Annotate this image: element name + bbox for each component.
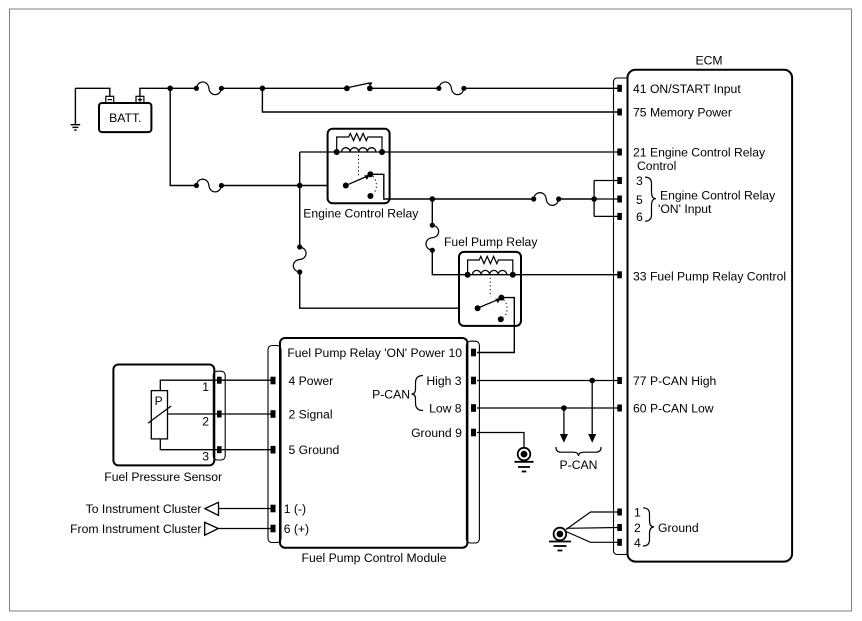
module pin 2 Signal xyxy=(271,410,276,418)
svg-text:4 Power: 4 Power xyxy=(289,374,334,388)
wire fuse F6 to fuel pump relay coil xyxy=(432,250,467,275)
svg-text:Low 8: Low 8 xyxy=(429,402,462,416)
svg-text:'ON' Input: 'ON' Input xyxy=(658,202,712,216)
wire module High 3 to ECM pin 77 xyxy=(477,380,619,382)
svg-text:2 Signal: 2 Signal xyxy=(289,408,333,422)
wire fuse F5 to node E xyxy=(559,198,594,200)
svg-text:Fuel Pressure Sensor: Fuel Pressure Sensor xyxy=(104,470,222,484)
fuel pump relay switch xyxy=(475,295,508,323)
battery BATT. xyxy=(99,103,151,132)
module pin 10 xyxy=(471,349,476,357)
engine control relay switch xyxy=(343,171,377,199)
fuse F6 (vertical) xyxy=(426,223,439,253)
module pin 6 (+) xyxy=(271,525,276,533)
fuse F3 xyxy=(194,179,224,192)
svg-text:1 (-): 1 (-) xyxy=(284,502,306,516)
svg-text:Ground 9: Ground 9 xyxy=(411,426,462,440)
module pin 4 Power xyxy=(271,377,276,385)
svg-text:P-CAN: P-CAN xyxy=(372,387,410,401)
sensor pin 1 xyxy=(217,377,222,384)
sensor element rectangle xyxy=(151,391,167,439)
ECM pin 5 xyxy=(617,196,622,203)
node A junction xyxy=(167,86,173,92)
ECM pin 60 xyxy=(617,405,622,412)
wire module Low 8 to ECM pin 60 xyxy=(477,407,619,409)
ECM pin 75 xyxy=(617,109,622,116)
fuel pump relay plunger dotted link xyxy=(489,278,491,297)
svg-text:Ground: Ground xyxy=(658,521,699,535)
node D junction xyxy=(430,196,436,202)
module pin 1 (-) xyxy=(271,505,276,513)
wire ground to ECM pin 2 xyxy=(566,527,619,530)
ECM pin 41 xyxy=(617,85,622,92)
fuse F1 xyxy=(194,82,224,95)
wire node D to fuse F5 xyxy=(432,198,533,200)
wire fuse F4 to fuel pump relay switch input xyxy=(300,272,478,308)
wire battery negative to ground xyxy=(75,88,109,96)
ECM pin 1 xyxy=(617,509,622,516)
fuel pump relay coil terminal dots xyxy=(465,272,471,278)
fuse F2 xyxy=(436,82,466,95)
ECM pin 2 xyxy=(617,524,622,531)
svg-text:Fuel Pump Relay 'ON' Power 10: Fuel Pump Relay 'ON' Power 10 xyxy=(287,346,462,360)
wire node A to fuse F1 xyxy=(170,87,196,89)
svg-text:5 Ground: 5 Ground xyxy=(289,443,340,457)
fuel pressure sensor box xyxy=(113,365,214,466)
wire to module pin 6 (+) xyxy=(218,528,270,530)
svg-text:33 Fuel Pump Relay Control: 33 Fuel Pump Relay Control xyxy=(633,270,786,284)
ECM pin 4 xyxy=(617,539,622,546)
engine control relay coil terminal dots xyxy=(334,149,340,155)
ignition switch SW1 xyxy=(344,82,373,91)
P-CAN junction dot on High line xyxy=(589,378,595,384)
svg-text:P: P xyxy=(155,394,163,408)
wire node C down to fuse F4 xyxy=(299,186,301,248)
bracket wires to ECM pins 3,5,6 xyxy=(594,181,619,217)
wire node B to ignition switch xyxy=(262,87,347,89)
node E junction xyxy=(591,196,597,202)
fuse F5 xyxy=(531,193,561,206)
brace } for ground pins 1,2,4 xyxy=(643,508,654,546)
fuel pump relay coil through-wire xyxy=(459,274,619,276)
battery positive terminal xyxy=(136,96,144,103)
svg-text:6 (+): 6 (+) xyxy=(284,522,309,536)
brace } for pins 3,5,6 xyxy=(645,177,656,221)
sensor pin 3 xyxy=(217,446,222,453)
svg-text:Engine Control Relay: Engine Control Relay xyxy=(303,206,419,220)
fuel pump relay coil xyxy=(472,270,506,274)
svg-text:P-CAN: P-CAN xyxy=(560,458,598,472)
module pin Ground 9 xyxy=(471,429,476,437)
ECM connector strip xyxy=(614,78,628,555)
battery negative terminal xyxy=(106,96,114,103)
svg-text:ECM: ECM xyxy=(695,54,722,68)
chassis ground G3 (ECM grounds) xyxy=(549,528,571,551)
sensor connector strip xyxy=(213,371,225,460)
svg-text:Fuel Pump Relay: Fuel Pump Relay xyxy=(444,235,538,249)
wire ground to ECM pin 1 xyxy=(566,512,619,530)
svg-text:5: 5 xyxy=(636,193,643,207)
P-CAN arrow from High xyxy=(591,381,593,435)
module pin 5 Ground xyxy=(271,446,276,454)
svg-text:3: 3 xyxy=(636,174,643,188)
wire sensor pin1 to module 4 Power xyxy=(222,379,271,381)
svg-text:2: 2 xyxy=(634,521,641,535)
svg-text:77 P-CAN High: 77 P-CAN High xyxy=(633,374,716,388)
ECM pin 33 xyxy=(617,271,622,278)
svg-text:75 Memory Power: 75 Memory Power xyxy=(633,106,732,120)
ECM pin 77 xyxy=(617,377,622,384)
module pin High 3 xyxy=(471,377,476,385)
wire battery positive to node A xyxy=(140,88,170,96)
sensor pin 2 xyxy=(217,411,222,418)
svg-text:41 ON/START Input: 41 ON/START Input xyxy=(633,82,741,96)
chassis ground G2 (module ground) xyxy=(515,448,534,472)
sensor internal wire to pin 3 xyxy=(160,439,217,450)
svg-text:BATT.: BATT. xyxy=(109,111,141,125)
P-CAN junction dot on Low line xyxy=(561,405,567,411)
svg-text:Control: Control xyxy=(637,159,676,173)
svg-text:6: 6 xyxy=(636,210,643,224)
svg-text:2: 2 xyxy=(202,415,209,429)
svg-text:From Instrument Cluster: From Instrument Cluster xyxy=(70,522,201,536)
sensor diagonal slash xyxy=(148,406,171,423)
wire fuse F3 to node C and relay switch input xyxy=(221,185,345,187)
wire sensor pin3 to module 5 Ground xyxy=(222,449,271,451)
wire coil left branch down to node C xyxy=(299,152,301,186)
ground (battery negative earth ground) xyxy=(71,88,81,130)
svg-text:60 P-CAN Low: 60 P-CAN Low xyxy=(633,402,714,416)
wire switch to fuse F2 xyxy=(370,87,439,89)
node B xyxy=(260,86,266,92)
ECM pin 6 xyxy=(617,213,622,220)
P-CAN underbrace xyxy=(556,447,601,456)
svg-text:Fuel Pump Control Module: Fuel Pump Control Module xyxy=(302,551,447,565)
wire module Ground 9 to chassis ground xyxy=(477,433,524,448)
engine control relay coil through-wire (to ECM pin 21) xyxy=(300,151,619,153)
wire to module pin 1 (-) xyxy=(219,508,271,510)
P-CAN arrow from Low xyxy=(563,408,565,434)
engine control relay K1 box xyxy=(328,129,390,204)
svg-text:High 3: High 3 xyxy=(426,374,461,388)
engine control relay coil xyxy=(342,148,376,152)
wire node B down to memory power line / ECM pin 75 xyxy=(262,88,619,112)
fuel pump control module box xyxy=(280,338,467,548)
wire fuse F1 to node B xyxy=(221,87,262,89)
wire fuse F2 to ECM pin 41 xyxy=(464,87,619,89)
wire node A down to relay feed line xyxy=(170,88,196,185)
brace { for P-CAN high/low xyxy=(412,376,424,411)
fuel pump relay K2 box xyxy=(459,252,521,326)
ECM pin 3 xyxy=(617,177,622,184)
svg-text:To Instrument Cluster: To Instrument Cluster xyxy=(86,502,202,516)
fuse F4 (vertical) xyxy=(293,244,306,274)
engine control relay plunger dotted link xyxy=(358,155,360,176)
svg-text:Engine Control Relay: Engine Control Relay xyxy=(660,189,776,203)
module left connector strip xyxy=(268,346,281,543)
svg-text:4: 4 xyxy=(634,536,641,550)
wire fuel pump relay switch output to module pin 10 xyxy=(477,298,514,353)
fuel pump relay resistor xyxy=(468,256,513,274)
sensor internal wire to pin 2 xyxy=(168,413,218,415)
svg-text:1: 1 xyxy=(634,506,641,520)
svg-text:21 Engine Control Relay: 21 Engine Control Relay xyxy=(633,146,766,160)
wire sensor pin2 to module 2 Signal xyxy=(222,413,271,415)
ECM pin 21 xyxy=(617,149,622,156)
node C junction xyxy=(297,183,303,189)
ECM box xyxy=(628,70,793,562)
wire relay switch output to node D xyxy=(370,174,432,199)
module pin Low 8 xyxy=(471,404,476,412)
engine control relay resistor xyxy=(337,133,382,152)
module right connector strip xyxy=(466,341,479,543)
wire ground to ECM pin 4 xyxy=(566,532,619,543)
sensor internal wire to pin 1 xyxy=(160,380,217,390)
wire node D down to fuse F6 xyxy=(431,199,433,225)
svg-text:3: 3 xyxy=(202,450,209,464)
svg-text:1: 1 xyxy=(202,380,209,394)
